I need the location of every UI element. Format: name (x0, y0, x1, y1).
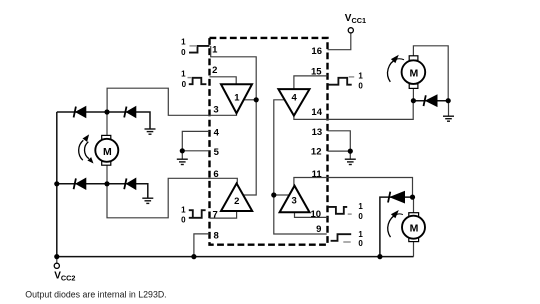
svg-text:1: 1 (181, 70, 186, 79)
svg-text:12: 12 (311, 146, 322, 157)
svg-text:6: 6 (213, 169, 218, 180)
svg-text:1: 1 (358, 202, 363, 211)
svg-text:0: 0 (358, 239, 363, 248)
svg-text:8: 8 (214, 230, 219, 241)
svg-text:2: 2 (234, 196, 239, 207)
svg-text:0: 0 (358, 212, 363, 221)
svg-text:9: 9 (316, 224, 321, 235)
svg-text:16: 16 (311, 46, 322, 57)
svg-text:7: 7 (212, 209, 217, 220)
svg-text:1: 1 (358, 230, 363, 239)
svg-text:14: 14 (311, 107, 322, 118)
svg-text:15: 15 (311, 67, 322, 78)
svg-text:M: M (410, 68, 419, 80)
svg-text:4: 4 (214, 127, 220, 138)
svg-text:1: 1 (181, 206, 186, 215)
svg-text:11: 11 (312, 169, 323, 180)
svg-text:Output diodes are internal in: Output diodes are internal in L293D. (25, 289, 166, 299)
svg-text:3: 3 (292, 196, 297, 207)
svg-text:4: 4 (292, 93, 298, 104)
svg-text:1: 1 (358, 72, 363, 81)
svg-text:10: 10 (311, 209, 322, 220)
svg-text:5: 5 (214, 147, 220, 158)
svg-text:2: 2 (212, 65, 217, 76)
svg-text:3: 3 (213, 104, 218, 115)
svg-text:1: 1 (234, 93, 240, 104)
svg-text:0: 0 (182, 80, 187, 89)
svg-text:1: 1 (181, 38, 186, 47)
svg-text:13: 13 (312, 127, 323, 138)
svg-text:1: 1 (212, 44, 218, 55)
svg-text:0: 0 (181, 215, 186, 224)
svg-text:0: 0 (358, 81, 363, 90)
svg-text:M: M (103, 146, 112, 158)
svg-text:0: 0 (181, 48, 186, 57)
svg-text:M: M (410, 223, 419, 235)
